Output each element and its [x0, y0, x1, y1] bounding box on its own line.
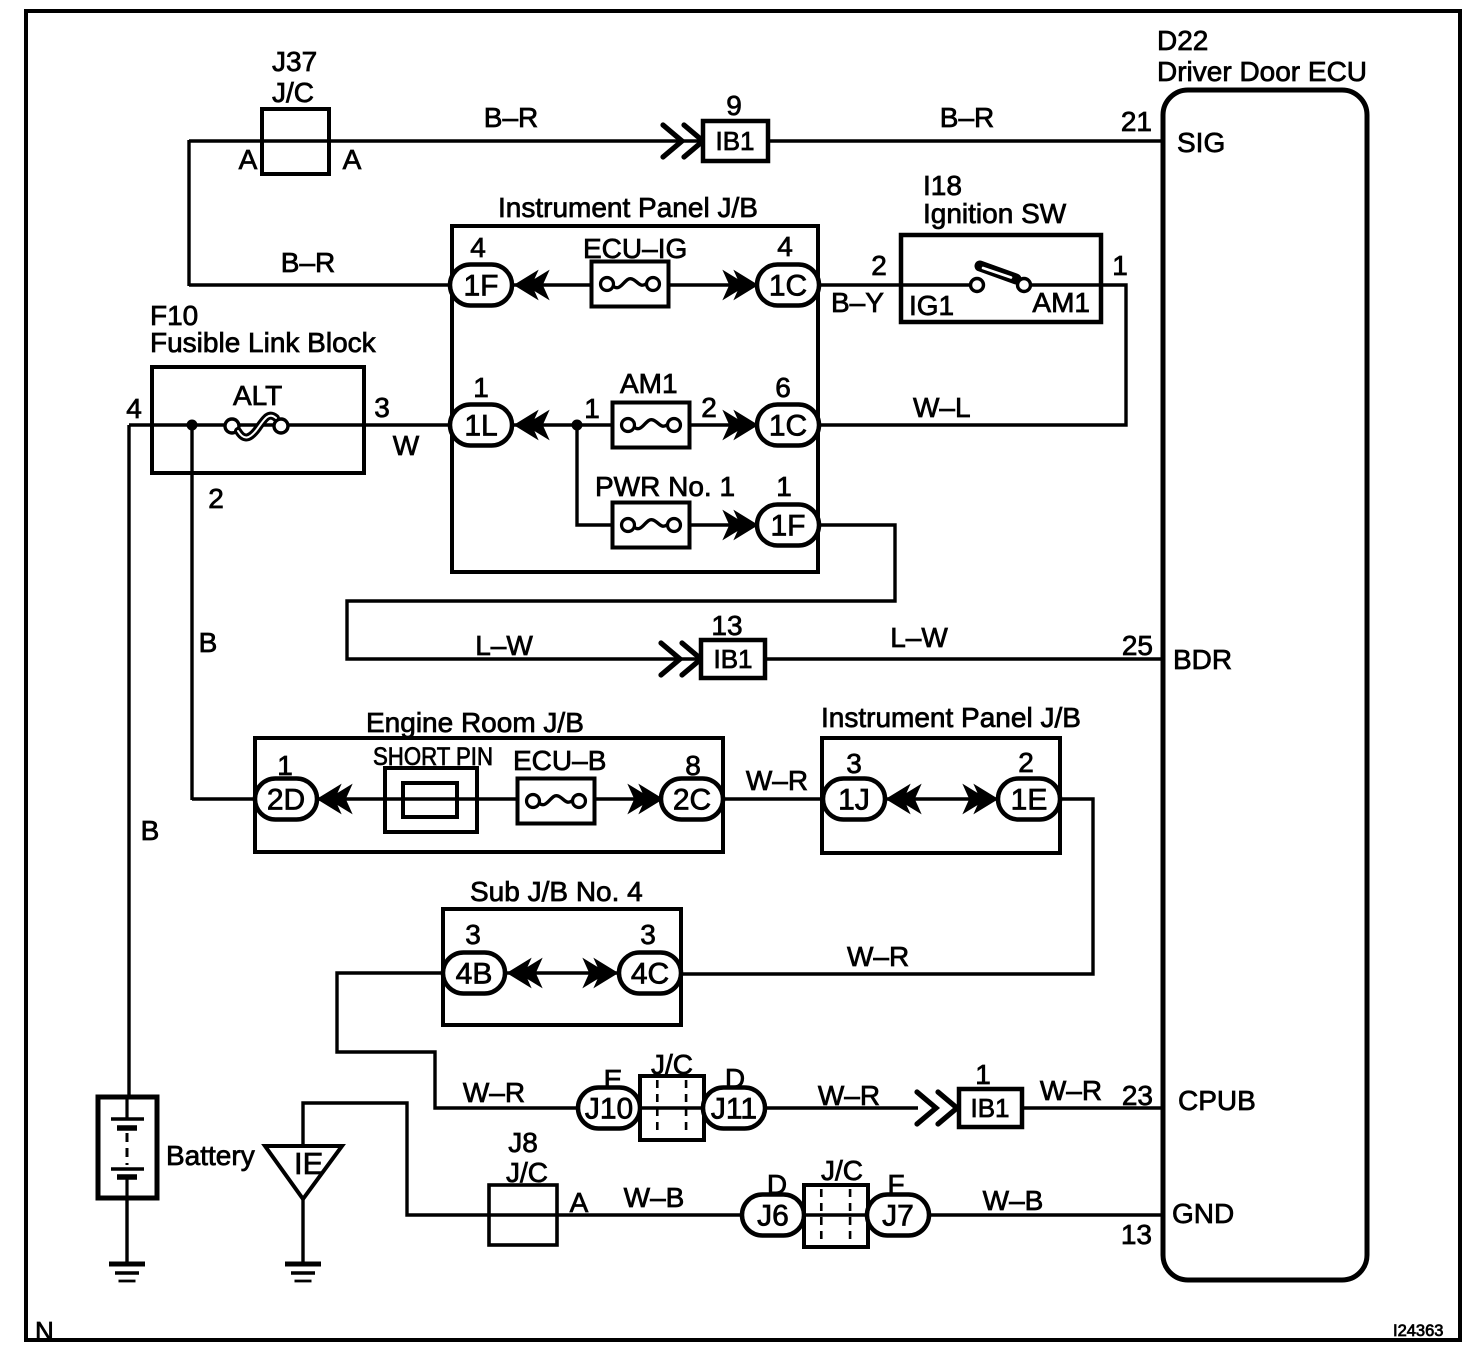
svg-text:1: 1 [473, 372, 489, 403]
svg-text:IB1: IB1 [715, 126, 754, 156]
svg-text:J37: J37 [272, 46, 317, 77]
svg-text:B–Y: B–Y [831, 287, 884, 318]
svg-text:1C: 1C [769, 410, 807, 443]
svg-text:Engine Room J/B: Engine Room J/B [366, 707, 584, 738]
fuse PWR No. 1 [613, 503, 690, 548]
svg-text:ALT: ALT [233, 380, 282, 411]
connector 2D pin 1 [255, 779, 317, 820]
arrow into 1F [515, 272, 548, 299]
arrow into 1J [887, 786, 920, 813]
svg-text:D: D [767, 1169, 787, 1200]
wire W-R from 1E down to 4C [680, 799, 1093, 974]
svg-text:2: 2 [871, 250, 887, 281]
connector 1C pin 6 [757, 405, 819, 446]
Instrument Panel J/B box (upper) [452, 226, 818, 572]
svg-text:J/C: J/C [651, 1049, 693, 1080]
arrow into 2D [318, 786, 351, 813]
svg-text:2: 2 [1018, 747, 1034, 778]
wire W-B from J7 to ECU pin 13 (GND net) [928, 1213, 1163, 1216]
junction connector J/C between J6 and J7 [804, 1185, 868, 1247]
wire W-R from J11 to IB1 [764, 1106, 918, 1109]
svg-text:J11: J11 [711, 1093, 757, 1126]
svg-text:4: 4 [777, 231, 793, 262]
svg-text:4: 4 [126, 393, 142, 424]
arrow into 2C [629, 786, 662, 813]
Sub J/B No. 4 box [443, 909, 681, 1025]
svg-text:W–L: W–L [913, 392, 971, 423]
wire B from fusible link pin 4 down to battery [127, 425, 130, 1098]
Engine Room J/B box [255, 738, 723, 852]
svg-text:IG1: IG1 [909, 290, 954, 321]
svg-text:J7: J7 [882, 1200, 914, 1233]
connector 1F pin 1 [757, 505, 819, 546]
wire across J10/J11 J/C [640, 1106, 704, 1109]
svg-text:23: 23 [1122, 1080, 1153, 1111]
svg-text:IB1: IB1 [970, 1093, 1009, 1123]
svg-text:2: 2 [701, 392, 717, 423]
wire W-R from IB1 to ECU pin 23 (CPUB net) [1021, 1106, 1163, 1109]
svg-text:SHORT PIN: SHORT PIN [373, 743, 493, 771]
connector 1J pin 3 [823, 779, 885, 820]
arrow into 4B [508, 960, 541, 987]
arrow into 1L [515, 412, 548, 439]
connector IB1 (pin 13) [701, 640, 765, 678]
arrow into 1F (1) [724, 512, 757, 539]
svg-text:B: B [199, 627, 218, 658]
svg-text:J10: J10 [585, 1093, 633, 1126]
wire IE to ground [301, 1198, 304, 1264]
ground connector IE triangle [265, 1146, 342, 1199]
svg-text:D22: D22 [1157, 25, 1208, 56]
wire 4B to 4C inside Sub J/B No. 4 [504, 971, 620, 974]
connector J7 terminal F [867, 1195, 929, 1236]
svg-text:2: 2 [208, 483, 224, 514]
wire battery negative to ground [125, 1197, 128, 1264]
svg-text:1J: 1J [838, 784, 870, 817]
svg-text:4B: 4B [456, 958, 493, 991]
svg-text:L–W: L–W [890, 622, 948, 653]
wire through J/C between J6 and J7 [804, 1213, 868, 1216]
wire L-W from IB1 to ECU pin 25 (BDR net) [765, 657, 1163, 660]
svg-text:1: 1 [584, 393, 600, 424]
wire inside ignition switch from AM1 contact [1029, 283, 1101, 286]
junction at AM1 fuse input [572, 420, 583, 431]
battery [98, 1097, 157, 1198]
wire 2D to 2C through short pin and ECU-B fuse [317, 797, 662, 800]
wire 1L to 1C through AM1 fuse [512, 423, 757, 426]
svg-text:1: 1 [1112, 250, 1128, 281]
svg-text:N: N [35, 1316, 54, 1346]
svg-text:13: 13 [711, 610, 742, 641]
svg-text:25: 25 [1122, 630, 1153, 661]
svg-text:13: 13 [1121, 1219, 1152, 1250]
svg-text:Battery: Battery [166, 1140, 255, 1171]
svg-text:J6: J6 [757, 1200, 789, 1233]
connector 4C pin 3 [619, 953, 681, 994]
svg-text:B–R: B–R [940, 102, 994, 133]
junction connector J37 J/C box [262, 109, 329, 174]
svg-text:1F: 1F [463, 270, 498, 303]
svg-text:Instrument Panel J/B: Instrument Panel J/B [821, 702, 1081, 733]
svg-text:AM1: AM1 [620, 368, 678, 399]
svg-text:21: 21 [1121, 106, 1152, 137]
Instrument Panel J/B box (lower) [822, 738, 1060, 853]
svg-text:I18: I18 [923, 170, 962, 201]
svg-text:J/C: J/C [821, 1155, 863, 1186]
wire L-W from PWR No.1 1F to IB1 [347, 525, 895, 659]
fusible link ALT symbol [225, 416, 288, 438]
fuse ECU-B [518, 779, 595, 824]
svg-text:ECU–B: ECU–B [513, 745, 606, 776]
svg-text:3: 3 [465, 919, 481, 950]
svg-text:PWR No. 1: PWR No. 1 [595, 471, 735, 502]
junction connector J8 J/C box [489, 1185, 557, 1245]
fuse ECU-IG [592, 262, 669, 307]
svg-text:Instrument Panel J/B: Instrument Panel J/B [498, 192, 758, 223]
connector 1F pin 4 [450, 265, 512, 306]
svg-text:1F: 1F [770, 510, 805, 543]
ground below IE [285, 1264, 321, 1281]
connector IB1 (pin 9) [703, 121, 768, 161]
svg-text:W–R: W–R [746, 765, 808, 796]
svg-text:W–R: W–R [847, 941, 909, 972]
svg-text:4: 4 [470, 232, 486, 263]
connector J6 terminal D [742, 1195, 804, 1236]
svg-text:9: 9 [726, 90, 742, 121]
svg-text:J/C: J/C [506, 1157, 548, 1188]
svg-text:L–W: L–W [475, 630, 533, 661]
wire W-R from 4B to J10 [337, 973, 579, 1108]
svg-text:1: 1 [975, 1059, 991, 1090]
svg-text:8: 8 [685, 750, 701, 781]
svg-text:Fusible Link Block: Fusible Link Block [150, 327, 377, 358]
fusible link block F10 box [152, 367, 364, 473]
wire W-L from Ignition SW pin 1 to 1C pin 6 [818, 285, 1126, 425]
arrow into 1C (6) [724, 412, 757, 439]
arrow into 1C [724, 272, 757, 299]
svg-text:2D: 2D [267, 784, 305, 817]
svg-text:GND: GND [1172, 1198, 1234, 1229]
wire B-R from J37 to ECU pin 21 (SIG net) [189, 139, 1163, 142]
connector 1L pin 1 [450, 405, 512, 446]
wire 1F to 1C through ECU-IG fuse [512, 283, 757, 286]
connector IB1 (pin 1) [959, 1089, 1022, 1127]
wire B-Y from 1C to Ignition SW IG1 [818, 283, 901, 286]
svg-text:3: 3 [846, 748, 862, 779]
svg-text:F: F [887, 1169, 904, 1200]
svg-text:CPUB: CPUB [1178, 1085, 1256, 1116]
svg-text:3: 3 [374, 392, 390, 423]
wire 1J to 1E inside Instrument Panel J/B [884, 797, 999, 800]
svg-text:AM1: AM1 [1032, 287, 1090, 318]
svg-text:4C: 4C [631, 958, 669, 991]
wire B-R into Instrument Panel J/B pin 4 (1F) [189, 283, 452, 286]
connector arrow into IB1 (SIG wire) [663, 125, 703, 157]
svg-text:J/C: J/C [272, 77, 314, 108]
wire vertical from J37 terminal A down [187, 140, 190, 286]
connector arrow into IB1 (CPUB wire) [917, 1092, 957, 1124]
wire inside ignition switch to IG1 contact [901, 283, 972, 286]
svg-text:6: 6 [775, 372, 791, 403]
svg-text:I24363: I24363 [1393, 1322, 1443, 1340]
ignition switch I18 box [901, 235, 1101, 322]
svg-text:A: A [239, 144, 258, 175]
svg-text:W–B: W–B [624, 1182, 685, 1213]
fuse AM1 [613, 403, 690, 448]
svg-text:B: B [141, 815, 160, 846]
svg-text:A: A [343, 144, 362, 175]
wire W from Fusible Link pin 4/3 to 1L [129, 423, 451, 426]
wire into 2D [192, 797, 256, 800]
svg-text:J8: J8 [508, 1127, 538, 1158]
connector arrow into IB1 (BDR wire) [661, 643, 701, 675]
svg-text:SIG: SIG [1177, 127, 1225, 158]
ground below battery [109, 1264, 145, 1281]
svg-text:D: D [725, 1063, 745, 1094]
connector 1C pin 4 [757, 265, 819, 306]
junction connector J/C between J10 and J11 [640, 1076, 704, 1140]
svg-text:E: E [604, 1064, 623, 1095]
svg-text:W–R: W–R [1040, 1075, 1102, 1106]
connector 2C pin 8 [661, 779, 723, 820]
svg-text:W–R: W–R [818, 1080, 880, 1111]
svg-text:1: 1 [776, 471, 792, 502]
connector J11 terminal D [703, 1088, 765, 1129]
ignition switch contacts and lever [971, 266, 1031, 292]
arrow into 1E [964, 786, 997, 813]
arrow into 4C [584, 960, 617, 987]
svg-text:Sub J/B No. 4: Sub J/B No. 4 [470, 876, 643, 907]
svg-text:1E: 1E [1011, 784, 1048, 817]
connector J10 terminal E [578, 1088, 640, 1129]
svg-text:1C: 1C [769, 270, 807, 303]
svg-text:B–R: B–R [484, 102, 538, 133]
wire through J/C between J10 and J11 [640, 1106, 704, 1109]
svg-text:ECU–IG: ECU–IG [583, 233, 687, 264]
wire across J6/J7 J/C [804, 1213, 868, 1216]
wire branch to PWR No. 1 fuse [577, 425, 757, 525]
svg-text:W: W [393, 430, 420, 461]
svg-text:W–R: W–R [463, 1077, 525, 1108]
junction at fusible link pin 2 [187, 420, 198, 431]
short pin symbol [385, 768, 477, 832]
wire W-B ground run from IE to J6 through J8 [303, 1103, 743, 1215]
connector 4B pin 3 [443, 953, 505, 994]
svg-text:1L: 1L [464, 410, 497, 443]
svg-text:BDR: BDR [1173, 644, 1232, 675]
svg-text:B–R: B–R [281, 247, 335, 278]
wire B from fusible link pin 2 down to Engine Room J/B [190, 425, 193, 800]
svg-text:1: 1 [277, 750, 293, 781]
wire W-R from 2C to 1J [722, 797, 824, 800]
svg-text:3: 3 [640, 919, 656, 950]
svg-text:Ignition SW: Ignition SW [923, 198, 1067, 229]
svg-text:A: A [570, 1187, 589, 1218]
svg-text:IE: IE [294, 1146, 323, 1181]
svg-text:2C: 2C [673, 784, 711, 817]
svg-text:Driver Door ECU: Driver Door ECU [1157, 56, 1367, 87]
connector 1E pin 2 [998, 779, 1060, 820]
svg-text:W–B: W–B [983, 1185, 1044, 1216]
ECU D22 Driver Door ECU outline [1163, 90, 1367, 1280]
svg-text:IB1: IB1 [713, 644, 752, 674]
